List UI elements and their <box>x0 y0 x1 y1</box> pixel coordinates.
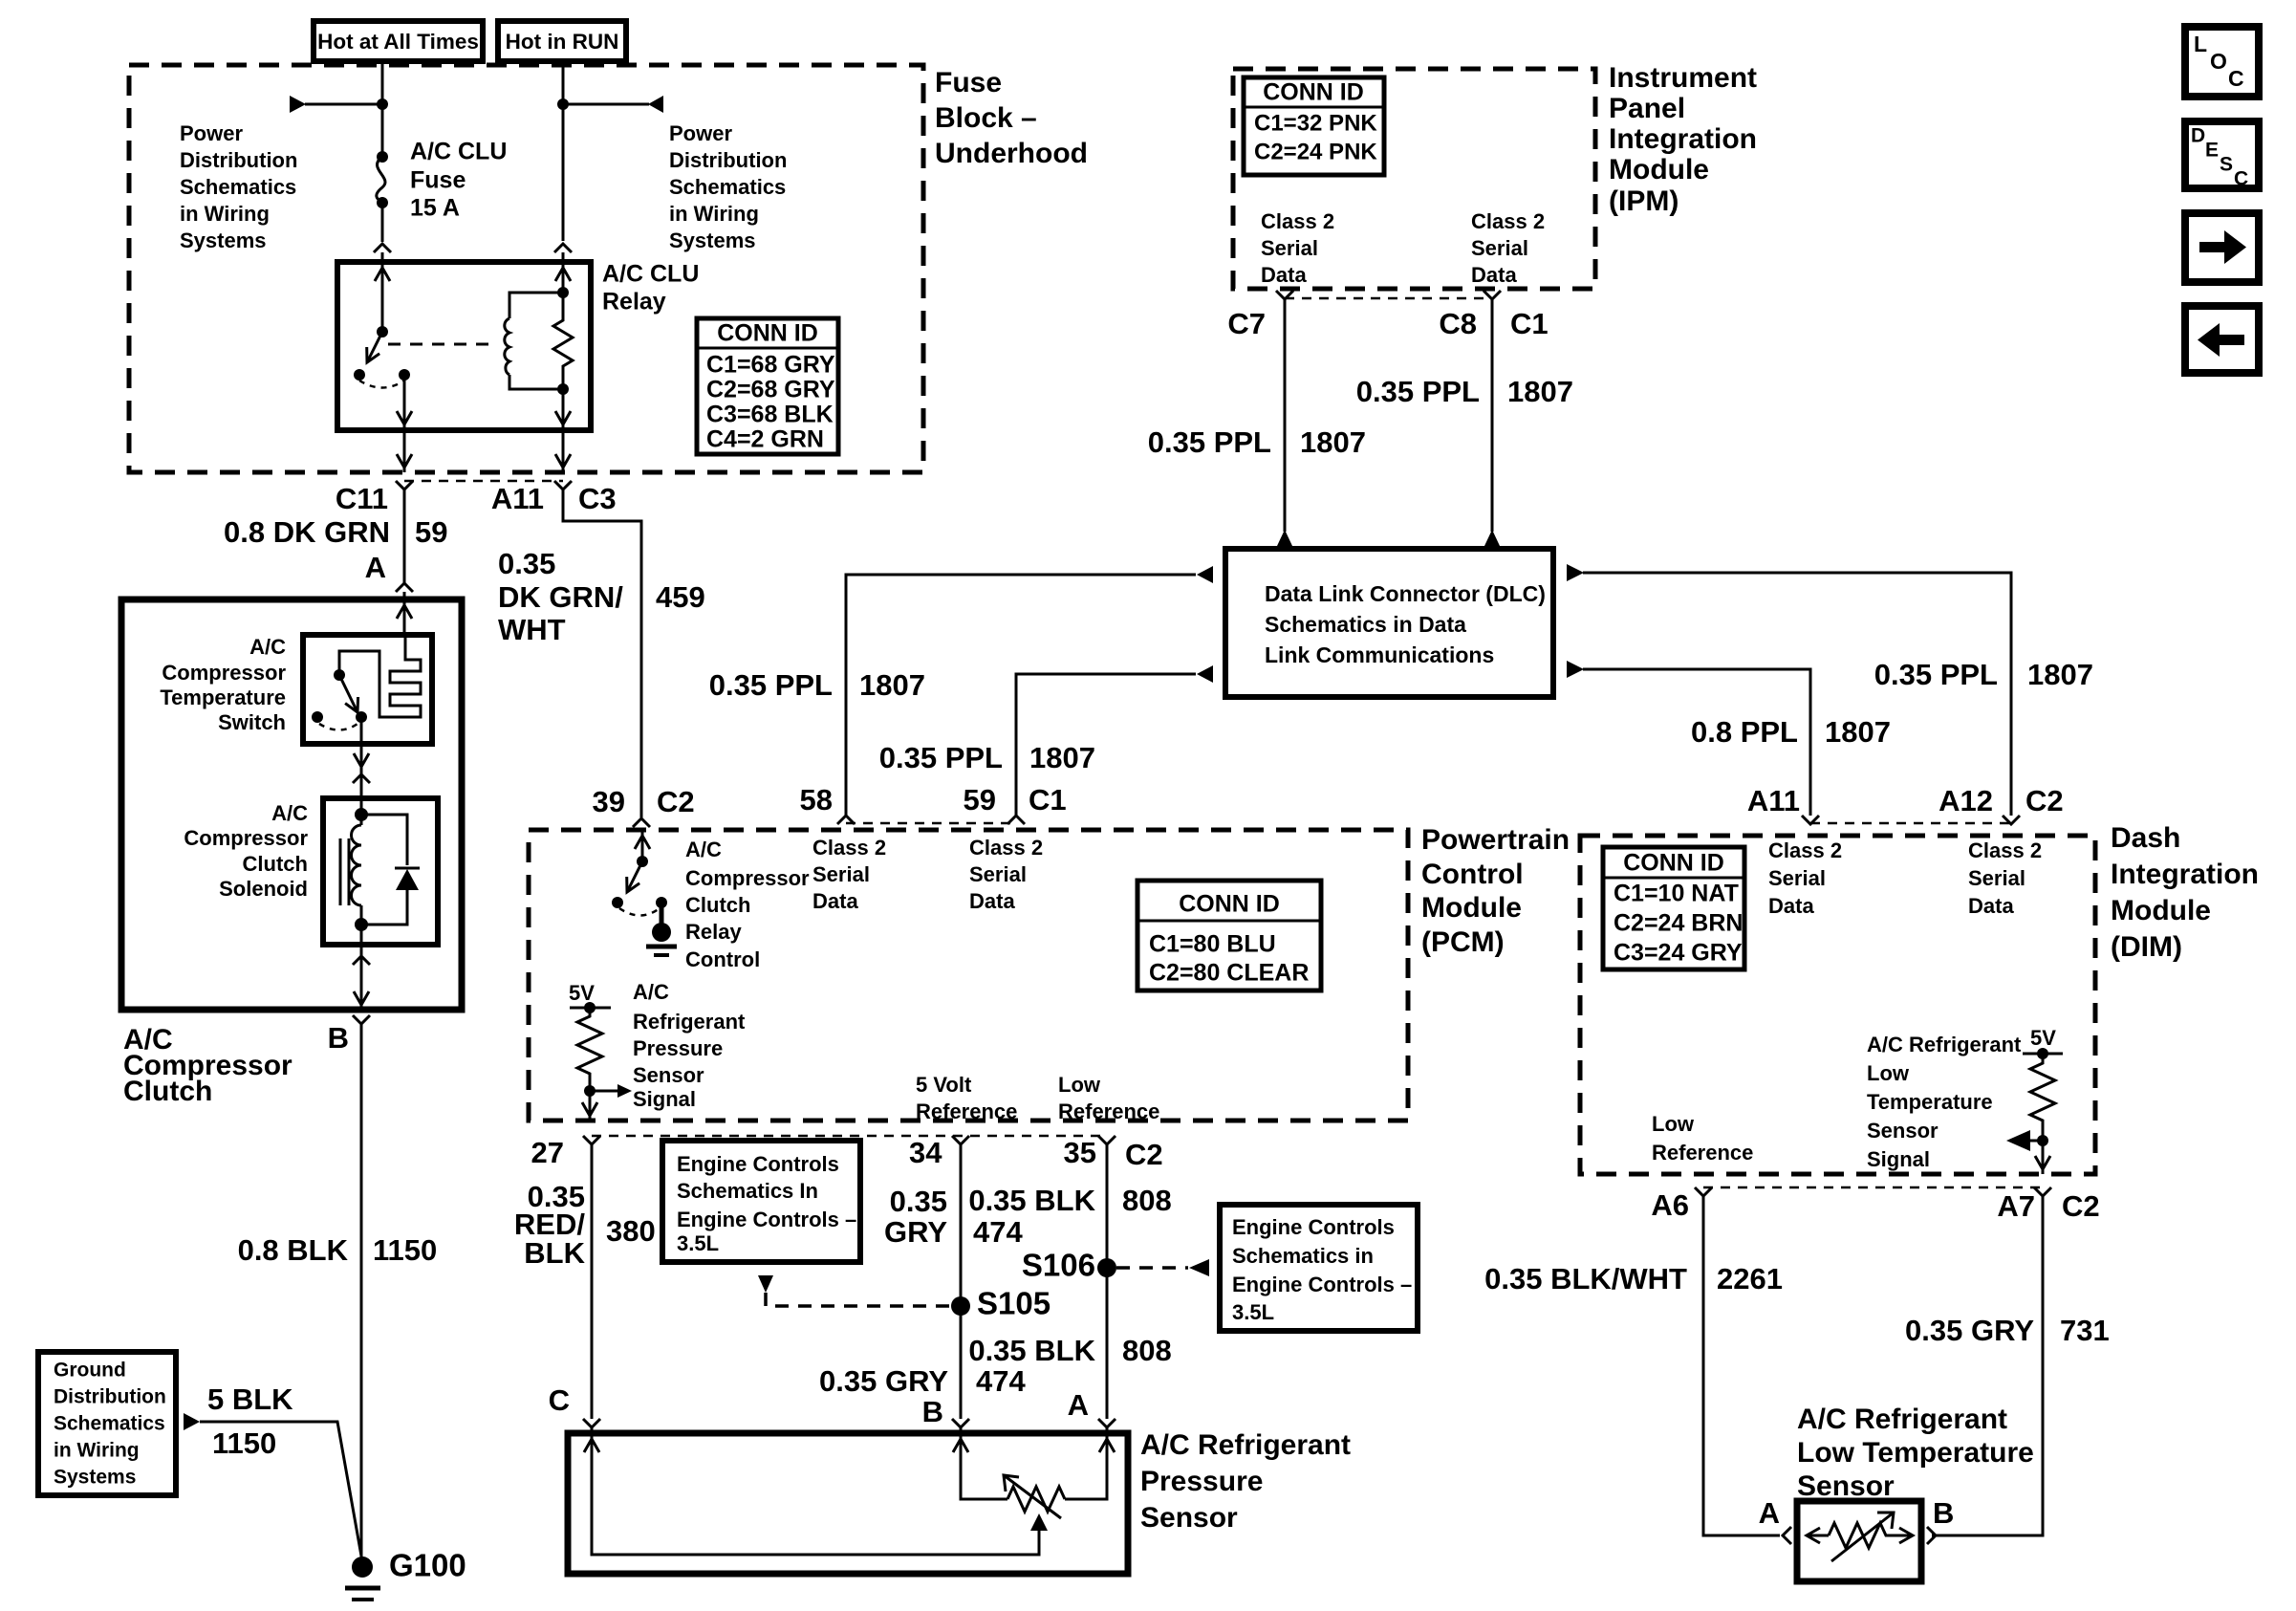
svg-text:Module: Module <box>2111 895 2211 926</box>
svg-text:Engine Controls –: Engine Controls – <box>677 1208 856 1231</box>
svg-text:Power: Power <box>669 121 732 145</box>
svg-text:C2=24 PNK: C2=24 PNK <box>1254 139 1377 164</box>
svg-text:0.35 BLK: 0.35 BLK <box>968 1184 1095 1217</box>
svg-text:C1=32 PNK: C1=32 PNK <box>1254 110 1377 136</box>
svg-text:808: 808 <box>1122 1334 1172 1367</box>
svg-text:34: 34 <box>909 1136 942 1169</box>
svg-text:Systems: Systems <box>180 229 267 252</box>
svg-text:3.5L: 3.5L <box>1232 1300 1274 1324</box>
svg-text:C: C <box>2234 168 2248 190</box>
svg-text:Link Communications: Link Communications <box>1265 642 1494 667</box>
svg-text:Schematics In: Schematics In <box>677 1179 818 1203</box>
svg-text:Pressure: Pressure <box>633 1036 723 1060</box>
svg-text:in Wiring: in Wiring <box>54 1440 140 1462</box>
svg-text:C1: C1 <box>1029 783 1067 816</box>
svg-text:39: 39 <box>593 785 625 818</box>
svg-text:5V: 5V <box>2030 1026 2056 1050</box>
svg-text:Signal: Signal <box>1867 1147 1930 1171</box>
svg-text:C7: C7 <box>1227 307 1266 340</box>
svg-text:Refrigerant: Refrigerant <box>633 1010 746 1034</box>
svg-text:Data Link Connector (DLC): Data Link Connector (DLC) <box>1265 581 1546 606</box>
svg-text:C11: C11 <box>336 482 388 515</box>
svg-text:Relay: Relay <box>602 289 666 316</box>
svg-text:Class 2: Class 2 <box>1261 209 1334 233</box>
svg-text:CONN ID: CONN ID <box>1623 850 1724 877</box>
svg-text:C1=68 GRY: C1=68 GRY <box>706 352 835 379</box>
svg-text:Temperature: Temperature <box>160 686 286 709</box>
svg-text:59: 59 <box>964 783 996 816</box>
svg-text:BLK: BLK <box>524 1236 585 1270</box>
svg-text:Reference: Reference <box>1058 1099 1159 1123</box>
svg-text:Sensor: Sensor <box>1797 1470 1895 1502</box>
svg-text:Reference: Reference <box>1652 1141 1753 1165</box>
svg-text:Powertrain: Powertrain <box>1421 824 1570 856</box>
svg-text:CONN ID: CONN ID <box>1179 891 1280 918</box>
svg-text:A/C Refrigerant: A/C Refrigerant <box>1797 1404 2007 1435</box>
svg-text:C8: C8 <box>1439 307 1477 340</box>
svg-text:1807: 1807 <box>1300 425 1366 459</box>
svg-text:Serial: Serial <box>1471 236 1528 260</box>
svg-text:Ground: Ground <box>54 1360 126 1382</box>
svg-text:B: B <box>922 1395 943 1428</box>
svg-text:A/C CLU: A/C CLU <box>602 261 699 288</box>
svg-text:Clutch: Clutch <box>685 893 750 917</box>
svg-text:Clutch: Clutch <box>243 852 308 876</box>
svg-text:Schematics: Schematics <box>54 1413 165 1435</box>
svg-text:0.8 PPL: 0.8 PPL <box>1691 715 1798 749</box>
svg-text:Control: Control <box>1421 859 1524 890</box>
svg-text:Distribution: Distribution <box>54 1386 166 1408</box>
svg-text:Systems: Systems <box>669 229 756 252</box>
svg-text:C4=2 GRN: C4=2 GRN <box>706 426 824 453</box>
svg-text:C2: C2 <box>1125 1138 1163 1171</box>
svg-text:0.35 PPL: 0.35 PPL <box>879 741 1003 774</box>
svg-text:Clutch: Clutch <box>123 1076 212 1107</box>
svg-text:58: 58 <box>800 783 833 816</box>
svg-text:E: E <box>2205 140 2219 162</box>
svg-text:0.35 PPL: 0.35 PPL <box>709 668 833 702</box>
svg-text:C1=10 NAT: C1=10 NAT <box>1614 881 1739 907</box>
svg-text:1807: 1807 <box>2027 658 2093 691</box>
svg-text:474: 474 <box>976 1364 1026 1398</box>
svg-text:A12: A12 <box>1939 784 1993 817</box>
svg-text:Schematics in Data: Schematics in Data <box>1265 612 1466 637</box>
svg-text:S105: S105 <box>977 1286 1051 1321</box>
svg-text:A/C: A/C <box>249 635 286 659</box>
svg-text:S106: S106 <box>1022 1248 1095 1283</box>
svg-text:Panel: Panel <box>1609 93 1685 124</box>
svg-text:5 BLK: 5 BLK <box>207 1382 293 1416</box>
svg-text:Sensor: Sensor <box>633 1063 704 1087</box>
svg-text:Schematics: Schematics <box>180 175 296 199</box>
svg-text:in Wiring: in Wiring <box>180 202 270 226</box>
svg-text:731: 731 <box>2060 1314 2110 1347</box>
svg-text:C3=24 GRY: C3=24 GRY <box>1614 940 1743 967</box>
svg-text:Reference: Reference <box>916 1099 1017 1123</box>
svg-text:A11: A11 <box>491 482 544 515</box>
svg-text:B: B <box>1933 1496 1954 1530</box>
svg-text:Class 2: Class 2 <box>812 836 886 860</box>
svg-text:0.35 PPL: 0.35 PPL <box>1148 425 1271 459</box>
svg-text:0.35 PPL: 0.35 PPL <box>1356 375 1480 408</box>
svg-text:C3=68 BLK: C3=68 BLK <box>706 402 834 428</box>
svg-text:474: 474 <box>973 1215 1023 1249</box>
svg-text:Schematics: Schematics <box>669 175 786 199</box>
svg-text:Compressor: Compressor <box>162 661 286 685</box>
svg-text:1807: 1807 <box>1029 741 1095 774</box>
svg-text:C: C <box>549 1383 570 1417</box>
svg-text:Class 2: Class 2 <box>1768 838 1842 862</box>
svg-text:S: S <box>2220 154 2233 176</box>
svg-text:Integration: Integration <box>1609 123 1757 155</box>
svg-text:Engine Controls: Engine Controls <box>1232 1215 1395 1239</box>
svg-text:Temperature: Temperature <box>1867 1090 1993 1114</box>
svg-text:Underhood: Underhood <box>935 138 1088 169</box>
svg-text:Pressure: Pressure <box>1140 1466 1263 1497</box>
svg-text:Compressor: Compressor <box>184 826 308 850</box>
svg-text:in Wiring: in Wiring <box>669 202 759 226</box>
svg-text:G100: G100 <box>389 1548 466 1583</box>
svg-text:(PCM): (PCM) <box>1421 926 1505 958</box>
svg-text:5 Volt: 5 Volt <box>916 1073 972 1097</box>
svg-text:(DIM): (DIM) <box>2111 931 2182 963</box>
svg-text:CONN ID: CONN ID <box>717 320 818 347</box>
svg-text:A: A <box>1068 1388 1089 1422</box>
svg-text:A/C: A/C <box>633 980 669 1004</box>
svg-text:Hot in RUN: Hot in RUN <box>506 30 619 54</box>
svg-text:A6: A6 <box>1651 1188 1689 1222</box>
svg-text:L: L <box>2194 32 2207 56</box>
svg-text:(IPM): (IPM) <box>1609 185 1679 217</box>
svg-text:Switch: Switch <box>218 710 286 734</box>
svg-text:Low Temperature: Low Temperature <box>1797 1437 2034 1469</box>
svg-text:Class 2: Class 2 <box>1968 838 2042 862</box>
svg-text:Hot at All Times: Hot at All Times <box>317 30 479 54</box>
svg-text:D: D <box>2191 125 2205 147</box>
svg-text:A/C: A/C <box>271 801 308 825</box>
svg-text:808: 808 <box>1122 1184 1172 1217</box>
svg-text:GRY: GRY <box>884 1215 947 1249</box>
svg-text:C3: C3 <box>578 482 617 515</box>
svg-text:Engine Controls –: Engine Controls – <box>1232 1273 1412 1296</box>
svg-text:Relay: Relay <box>685 920 742 944</box>
svg-text:Fuse: Fuse <box>410 167 466 194</box>
svg-text:3.5L: 3.5L <box>677 1231 719 1255</box>
svg-text:5V: 5V <box>569 981 595 1005</box>
svg-text:Block –: Block – <box>935 102 1037 134</box>
svg-text:0.8 DK GRN: 0.8 DK GRN <box>224 515 390 549</box>
svg-text:Instrument: Instrument <box>1609 62 1757 94</box>
svg-text:Data: Data <box>812 889 858 913</box>
svg-text:15 A: 15 A <box>410 195 460 222</box>
svg-text:C2: C2 <box>2025 784 2064 817</box>
svg-text:1150: 1150 <box>212 1426 276 1460</box>
svg-text:Low: Low <box>1867 1061 1910 1085</box>
svg-text:0.35 GRY: 0.35 GRY <box>819 1364 948 1398</box>
svg-text:Fuse: Fuse <box>935 67 1002 98</box>
svg-text:Class 2: Class 2 <box>1471 209 1545 233</box>
svg-text:1150: 1150 <box>373 1233 437 1267</box>
svg-text:A: A <box>1759 1496 1780 1530</box>
svg-text:Distribution: Distribution <box>180 148 297 172</box>
svg-text:27: 27 <box>531 1136 564 1169</box>
svg-text:C2: C2 <box>2062 1189 2100 1223</box>
svg-text:Integration: Integration <box>2111 859 2259 890</box>
svg-text:1807: 1807 <box>859 668 925 702</box>
svg-text:1807: 1807 <box>1507 375 1573 408</box>
svg-text:Serial: Serial <box>1968 866 2025 890</box>
svg-text:DK GRN/: DK GRN/ <box>498 580 623 614</box>
svg-text:0.35: 0.35 <box>498 547 555 580</box>
svg-text:0.35: 0.35 <box>890 1185 947 1218</box>
svg-text:Data: Data <box>1471 263 1517 287</box>
svg-text:C2=24 BRN: C2=24 BRN <box>1614 910 1743 937</box>
svg-text:459: 459 <box>656 580 705 614</box>
svg-text:C2=68 GRY: C2=68 GRY <box>706 377 835 403</box>
svg-text:Signal: Signal <box>633 1087 696 1111</box>
svg-text:1807: 1807 <box>1825 715 1891 749</box>
svg-text:C1: C1 <box>1510 307 1549 340</box>
svg-text:Low: Low <box>1058 1073 1101 1097</box>
svg-text:Low: Low <box>1652 1112 1695 1136</box>
svg-text:O: O <box>2210 49 2227 74</box>
svg-text:A/C Refrigerant: A/C Refrigerant <box>1867 1033 2022 1056</box>
svg-text:Sensor: Sensor <box>1867 1119 1939 1143</box>
svg-text:Serial: Serial <box>812 862 870 886</box>
svg-text:0.35 BLK/WHT: 0.35 BLK/WHT <box>1484 1262 1687 1295</box>
svg-text:Schematics in: Schematics in <box>1232 1244 1374 1268</box>
svg-text:B: B <box>328 1021 349 1055</box>
svg-text:Engine Controls: Engine Controls <box>677 1152 839 1176</box>
svg-text:C1=80 BLU: C1=80 BLU <box>1149 931 1276 958</box>
svg-text:Class 2: Class 2 <box>969 836 1043 860</box>
svg-text:Compressor: Compressor <box>685 866 810 890</box>
svg-text:Module: Module <box>1609 154 1709 185</box>
svg-text:0.35 GRY: 0.35 GRY <box>1905 1314 2034 1347</box>
svg-text:Module: Module <box>1421 892 1522 924</box>
svg-text:35: 35 <box>1064 1136 1096 1169</box>
svg-text:C2=80 CLEAR: C2=80 CLEAR <box>1149 960 1309 987</box>
svg-text:Systems: Systems <box>54 1467 136 1489</box>
svg-text:0.8 BLK: 0.8 BLK <box>238 1233 349 1267</box>
svg-text:Power: Power <box>180 121 243 145</box>
svg-text:59: 59 <box>415 515 447 549</box>
svg-text:Distribution: Distribution <box>669 148 787 172</box>
svg-text:Data: Data <box>1968 894 2014 918</box>
svg-text:C: C <box>2228 66 2244 91</box>
svg-text:A/C Refrigerant: A/C Refrigerant <box>1140 1429 1351 1461</box>
svg-text:Dash: Dash <box>2111 822 2180 854</box>
svg-text:A: A <box>365 551 386 584</box>
svg-text:WHT: WHT <box>498 613 566 646</box>
svg-text:A/C CLU: A/C CLU <box>410 139 507 165</box>
svg-text:Data: Data <box>1768 894 1814 918</box>
svg-text:Serial: Serial <box>1768 866 1826 890</box>
svg-text:Serial: Serial <box>1261 236 1318 260</box>
svg-text:380: 380 <box>606 1214 656 1248</box>
svg-text:CONN ID: CONN ID <box>1263 79 1364 106</box>
svg-text:A11: A11 <box>1747 784 1800 817</box>
svg-text:0.35 PPL: 0.35 PPL <box>1874 658 1998 691</box>
svg-text:Control: Control <box>685 947 760 971</box>
svg-text:2261: 2261 <box>1717 1262 1783 1295</box>
svg-text:A/C: A/C <box>685 838 722 861</box>
svg-text:A7: A7 <box>1997 1189 2035 1223</box>
svg-text:Data: Data <box>969 889 1015 913</box>
svg-text:Solenoid: Solenoid <box>219 877 308 901</box>
svg-text:Data: Data <box>1261 263 1307 287</box>
svg-text:C2: C2 <box>657 785 695 818</box>
svg-text:Serial: Serial <box>969 862 1027 886</box>
svg-text:Sensor: Sensor <box>1140 1502 1238 1534</box>
svg-text:0.35 BLK: 0.35 BLK <box>968 1334 1095 1367</box>
